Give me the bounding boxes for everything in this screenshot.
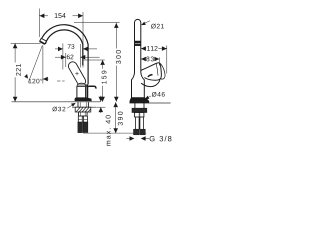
hose end reference line (83, 132, 146, 134)
pivot centerline (57, 80, 65, 82)
dimension 73 (55, 43, 97, 69)
dimension 62 (55, 56, 100, 58)
shank below nut (79, 112, 88, 116)
handle outer bulb edge (160, 63, 165, 79)
body cone and column (side view) (132, 73, 145, 98)
mounting nut (hatched) (75, 107, 91, 112)
dimension 83 (141, 57, 159, 65)
lever handle open position (pill) (68, 62, 85, 86)
shank (side view) (135, 103, 144, 108)
spout arc inner (left view) (45, 30, 82, 66)
dimension 112 (141, 45, 167, 73)
base escutcheon (side view) (130, 98, 149, 103)
spout column (side view) (135, 19, 141, 72)
dimension 221 (11, 43, 41, 101)
label G 3/8 with arrows (126, 138, 149, 140)
supply hoses (left view) (78, 116, 87, 122)
handle closed profile (cane shape) (86, 84, 89, 98)
handle pivot cross (75, 72, 78, 75)
label O21 with leader (141, 21, 150, 25)
counter reference line right view (149, 102, 171, 104)
handle grip thickening (148, 75, 153, 77)
handle inner line (156, 64, 158, 76)
dimension 390 (115, 102, 117, 133)
dimension 159 (83, 60, 105, 102)
spout arc outer (left view) (41, 25, 89, 85)
hose end fittings (left view) (78, 122, 83, 133)
hoses (side view) (135, 117, 143, 129)
dimension max.40 (96, 96, 105, 113)
aerator tip (40, 38, 47, 44)
angle 120deg legs (28, 46, 48, 84)
label O46 with leader (145, 96, 151, 99)
lever handle grip (side view) (141, 63, 162, 80)
tube segment below nut (135, 113, 144, 118)
cartridge dome (77, 83, 86, 86)
counter bottom line (72, 106, 96, 108)
mounting shank (78, 102, 88, 108)
base escutcheon (left view) (75, 98, 91, 102)
swivel rings (135, 41, 141, 43)
dimension 154 (39, 9, 83, 68)
dimension 300 (74, 23, 120, 102)
nut (side view) (132, 108, 147, 112)
counter reference line left view (12, 101, 101, 103)
hose end fittings (side view) (134, 129, 140, 135)
handle loop lower return (141, 79, 160, 87)
label O32 with leader (67, 104, 74, 109)
faucet body column (left view) (77, 87, 86, 98)
